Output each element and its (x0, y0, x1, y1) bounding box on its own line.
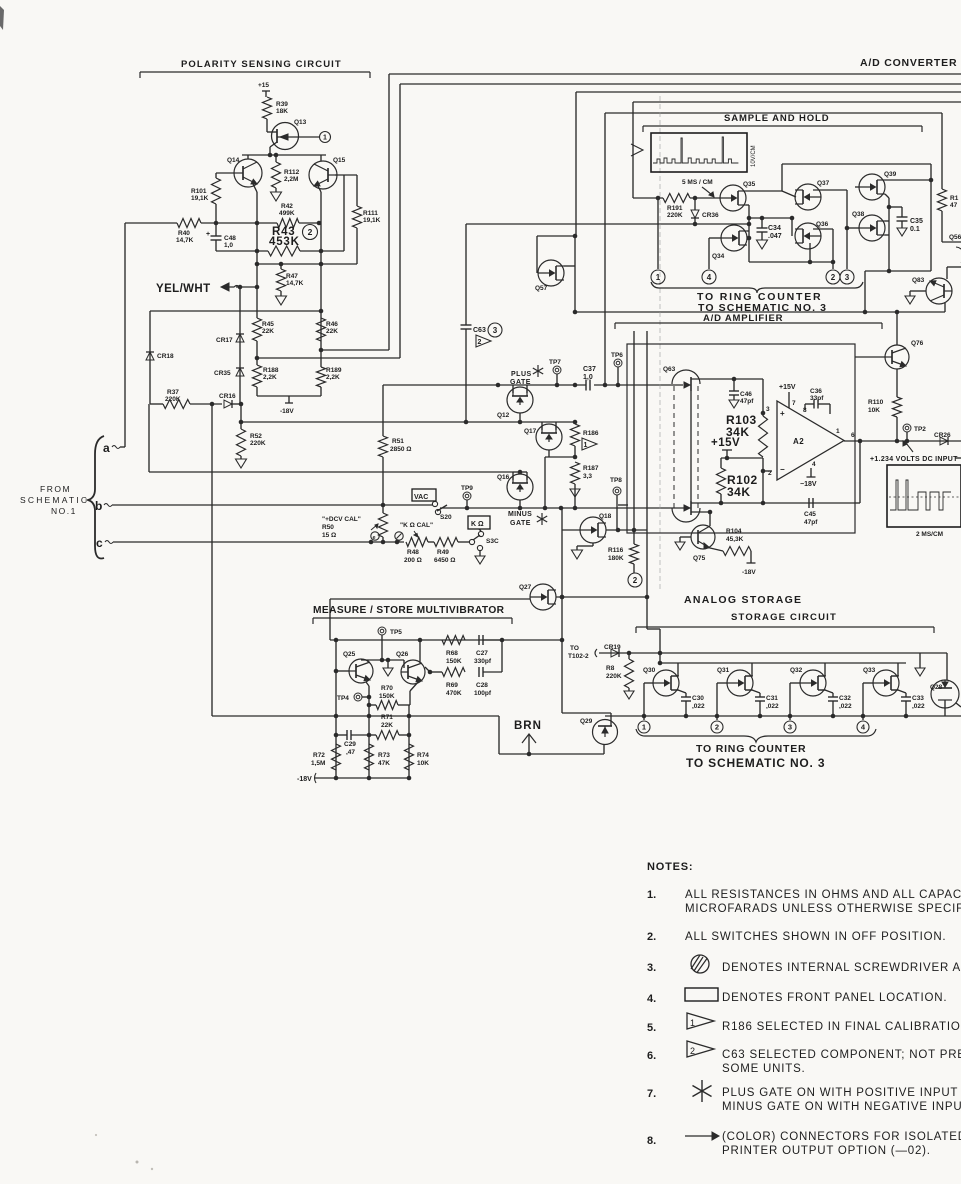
svg-text:2: 2 (308, 227, 313, 237)
svg-text:0.1: 0.1 (910, 226, 920, 233)
wire Q34 gate from connector 4 (709, 237, 721, 239)
wire Q76 base (855, 356, 885, 358)
wire emitter rail y264 (257, 263, 357, 265)
svg-text:(COLOR) CONNECTORS FOR ISOLATE: (COLOR) CONNECTORS FOR ISOLATED (722, 1131, 961, 1143)
wire x562 from minus gate down to Q29 (561, 508, 563, 712)
ground below C35 (897, 228, 907, 236)
resistor R110 (893, 397, 902, 417)
svg-text:Q16: Q16 (497, 474, 510, 481)
wire Q18 minus node (618, 504, 628, 506)
svg-text:C48: C48 (224, 235, 236, 242)
note flag circled 2 for R43 (303, 225, 318, 240)
svg-text:ALL RESISTANCES IN OHMS AND AL: ALL RESISTANCES IN OHMS AND ALL CAPACIT (685, 889, 961, 901)
connector circle 1 storage (638, 721, 650, 733)
wire Q33 source to capacitor (891, 689, 898, 691)
svg-text:R48: R48 (407, 549, 419, 556)
connector circle 2 sample hold (826, 270, 840, 284)
transistor Q27 (330, 598, 530, 600)
wire Q83 collector exit (946, 267, 948, 279)
wire Q17 bottom to R186 R187 junction (548, 450, 550, 457)
svg-text:5 MS / CM: 5 MS / CM (682, 179, 713, 186)
capacitor C48 (215, 223, 217, 236)
svg-text:R111: R111 (363, 210, 378, 217)
capacitor C28 (478, 667, 480, 677)
wire C27 rail to x562 (502, 639, 562, 641)
svg-text:R50: R50 (322, 524, 334, 531)
svg-text:C35: C35 (910, 218, 923, 225)
svg-text:+: + (780, 409, 785, 418)
ground right of Q33 (919, 653, 921, 668)
svg-text:1,5M: 1,5M (311, 760, 325, 767)
svg-text:3: 3 (788, 723, 792, 732)
wire S20 to TP9 minus gate line (440, 507, 586, 509)
svg-text:R186: R186 (583, 430, 599, 437)
note flag 1 for R186 (582, 438, 597, 450)
transistor Q15 (320, 155, 322, 161)
svg-text:22K: 22K (381, 722, 393, 729)
resistor R39 (263, 97, 272, 119)
svg-text:330pf: 330pf (474, 658, 492, 665)
transistor Q34 (721, 225, 747, 251)
svg-text:C30: C30 (692, 695, 704, 702)
bracket sample and hold (643, 125, 922, 127)
bracket A/D amplifier (615, 322, 882, 324)
svg-text:"+DCV CAL": "+DCV CAL" (322, 516, 361, 523)
resistor R101 (216, 172, 234, 174)
transistor Q31 (727, 670, 753, 696)
svg-text:C31: C31 (766, 695, 778, 702)
svg-text:C37: C37 (583, 366, 596, 373)
resistor R111 (335, 174, 357, 176)
svg-text:TP7: TP7 (549, 359, 561, 366)
svg-text:SCHEMATIC: SCHEMATIC (20, 495, 89, 505)
capacitor C29 (336, 734, 347, 736)
wire Q18 base left (562, 529, 580, 531)
svg-text:22K: 22K (262, 328, 274, 335)
svg-text:45,3K: 45,3K (726, 536, 744, 543)
svg-text:Q33: Q33 (863, 667, 876, 674)
star symbol minus gate (537, 516, 547, 522)
opamp A2 triangle (777, 401, 844, 480)
svg-text:2: 2 (768, 470, 772, 477)
svg-text:R71: R71 (381, 714, 393, 721)
svg-text:FROM: FROM (40, 484, 71, 494)
scope waveform box 2ms (887, 465, 961, 527)
wire feedback from output (859, 441, 861, 503)
svg-text:R40: R40 (178, 230, 190, 237)
capacitor C46 upper (733, 379, 735, 391)
svg-text:CR17: CR17 (216, 337, 233, 344)
svg-text:TP9: TP9 (461, 485, 473, 492)
svg-text:+15V: +15V (779, 384, 796, 391)
wire minus gate line y472 (148, 404, 150, 472)
svg-text:Q31: Q31 (717, 667, 730, 674)
svg-text:47K: 47K (378, 760, 390, 767)
capacitor C35 (889, 206, 902, 208)
svg-text:R74: R74 (417, 752, 429, 759)
bracket multivibrator (313, 617, 512, 619)
wire Q14 emitter (253, 184, 257, 192)
svg-text:Q17: Q17 (524, 428, 537, 435)
transistor Q29 (593, 720, 618, 745)
wire top rail y164 (782, 163, 931, 165)
resistor R48 (406, 538, 428, 547)
svg-text:R187: R187 (583, 465, 599, 472)
svg-text:TP5: TP5 (390, 629, 402, 636)
svg-text:3: 3 (845, 273, 850, 282)
transistor Q17 (536, 424, 562, 450)
svg-text:CR18: CR18 (157, 353, 174, 360)
svg-text:+1.234 VOLTS DC INPUT: +1.234 VOLTS DC INPUT (870, 456, 958, 463)
svg-text:5.: 5. (647, 1022, 656, 1034)
svg-text:+15V: +15V (711, 437, 740, 449)
ground below R52 (240, 456, 242, 459)
transistor Q12 (507, 387, 533, 413)
wire Q18 bottom to ground (592, 543, 594, 546)
svg-text:Q83: Q83 (912, 277, 925, 284)
svg-text:YEL/WHT: YEL/WHT (156, 283, 211, 295)
svg-text:A2: A2 (793, 437, 804, 446)
wire terminal c line (113, 541, 404, 543)
resistor R40 (125, 222, 177, 224)
wire C34 rail to Q36 (791, 218, 793, 236)
svg-text:MICROFARADS UNLESS OTHERWISE S: MICROFARADS UNLESS OTHERWISE SPECIFIE (685, 903, 961, 915)
transistor Q16 (507, 474, 533, 500)
wire Q33 drain to rail (891, 675, 898, 677)
wire x240 down to CR16 row (239, 287, 241, 404)
bracket storage circuit (636, 626, 934, 628)
wire terminal b line (112, 504, 433, 506)
wire gate riser connector 1 (644, 682, 653, 684)
svg-text:DENOTES INTERNAL SCREWDRIVER A: DENOTES INTERNAL SCREWDRIVER AD (722, 962, 961, 974)
wire Q39 line to left rail (865, 270, 931, 272)
wire terminal a up to R40 (120, 446, 125, 448)
wire rail to Q28 (946, 653, 948, 680)
svg-text:A/D AMPLIFIER: A/D AMPLIFIER (703, 313, 783, 324)
diode CR18 vertical line (149, 311, 151, 404)
transistor Q33 (873, 670, 899, 696)
box K-ohm front panel (468, 516, 490, 529)
svg-text:Q75: Q75 (693, 555, 706, 562)
svg-text:R191: R191 (667, 205, 683, 212)
svg-text:470K: 470K (446, 690, 462, 697)
wire bus vertical x400 (399, 84, 401, 358)
resistor R103 (759, 416, 768, 457)
svg-text:453K: 453K (269, 236, 300, 248)
svg-text:1: 1 (656, 273, 661, 282)
brace to ring counter (651, 282, 863, 293)
svg-text:a: a (103, 441, 110, 455)
wire bus y113 to R190 (605, 112, 942, 114)
box VAC front panel (412, 489, 436, 501)
arrow below R187 (574, 484, 576, 508)
fold artifact line (659, 96, 661, 590)
wire Q27 output (556, 596, 647, 598)
svg-text:2: 2 (633, 576, 638, 585)
wire plus gate line y385 (383, 384, 586, 386)
arrow to TP2 (904, 441, 913, 452)
svg-text:R39: R39 (276, 101, 288, 108)
svg-text:-18V: -18V (742, 569, 756, 576)
resistor R188 (253, 365, 262, 387)
wire CR16 node down (240, 404, 242, 429)
svg-text:3: 3 (493, 326, 498, 335)
transistor Q28 (931, 680, 959, 708)
scan edge artifact (0, 6, 4, 30)
wire bus vertical x389 (388, 74, 390, 350)
svg-text:10V/CM: 10V/CM (751, 145, 757, 167)
svg-text:R188: R188 (263, 367, 279, 374)
ground below C46 (729, 400, 739, 408)
wire Q31 source to capacitor (745, 689, 752, 691)
svg-text:T102-2: T102-2 (568, 653, 589, 660)
resistor R191 (663, 194, 690, 203)
svg-text:Q30: Q30 (643, 667, 656, 674)
svg-text:1,0: 1,0 (583, 374, 593, 381)
resistor R190 at right (938, 189, 947, 211)
resistor R8 (628, 653, 630, 659)
resistor R45 (253, 318, 262, 341)
svg-text:R72: R72 (313, 752, 325, 759)
connector circle 3 sample hold (840, 270, 854, 284)
svg-text:R186 SELECTED IN FINAL CALIBRA: R186 SELECTED IN FINAL CALIBRATIO (722, 1021, 961, 1033)
wire Q30 source to capacitor (671, 689, 678, 691)
wire -18V rail under R188 R189 (256, 387, 258, 396)
resistor R116 (633, 530, 635, 544)
svg-text:,022: ,022 (766, 703, 779, 710)
svg-text:,022: ,022 (839, 703, 852, 710)
svg-text:100pf: 100pf (474, 690, 492, 697)
svg-text:S3C: S3C (486, 538, 499, 545)
svg-text:2,2K: 2,2K (263, 374, 277, 381)
svg-text:GATE: GATE (510, 520, 531, 527)
wire YEL/WHT (236, 286, 257, 288)
svg-text:14,7K: 14,7K (286, 280, 304, 287)
svg-text:R1: R1 (950, 195, 959, 202)
svg-text:C63: C63 (473, 327, 486, 334)
wire R46 top to CR18 (150, 310, 321, 312)
svg-text:4: 4 (812, 461, 816, 468)
wire R51 riser (382, 385, 384, 436)
capacitor C27 (478, 635, 480, 645)
switch S3C (469, 539, 474, 544)
svg-text:15 Ω: 15 Ω (322, 532, 336, 539)
transistor Q35 (720, 185, 746, 211)
svg-text:Q26: Q26 (396, 651, 409, 658)
svg-text:Q35: Q35 (743, 181, 756, 188)
capacitor C32 (828, 696, 838, 698)
wire Q35 source down (746, 204, 749, 206)
svg-text:R68: R68 (446, 650, 458, 657)
svg-text:A/D CONVERTER: A/D CONVERTER (860, 57, 957, 69)
svg-text:1: 1 (836, 428, 840, 435)
wire storage bottom rail y716 (605, 715, 961, 717)
resistor R47 (280, 264, 282, 269)
testpoint TP5 (378, 627, 386, 635)
svg-text:2,2M: 2,2M (284, 176, 298, 183)
resistor R189 (317, 367, 326, 387)
wire Q63 drain to R103 (691, 378, 763, 380)
svg-text:C46: C46 (740, 391, 752, 398)
wire multivibrator top rail y640 (330, 639, 502, 641)
svg-text:499K: 499K (279, 210, 295, 217)
wire Q30 drain to rail (671, 675, 678, 677)
svg-text:TO RING COUNTER: TO RING COUNTER (696, 743, 806, 755)
resistor R42 (277, 219, 299, 228)
svg-text:PLUS GATE ON WITH POSITIVE INP: PLUS GATE ON WITH POSITIVE INPUT S (722, 1087, 961, 1099)
svg-text:R45: R45 (262, 321, 274, 328)
svg-text:47pf: 47pf (740, 398, 754, 405)
svg-text:R70: R70 (381, 685, 393, 692)
transistor Q18 (580, 517, 606, 543)
svg-text:7: 7 (792, 400, 796, 407)
svg-text:C45: C45 (804, 511, 816, 518)
svg-text:C29: C29 (344, 741, 356, 748)
svg-text:Q38: Q38 (852, 211, 865, 218)
svg-text:220K: 220K (250, 440, 266, 447)
box A/D amplifier outline (627, 344, 855, 533)
svg-text:MINUS GATE ON WITH NEGATIVE IN: MINUS GATE ON WITH NEGATIVE INPU (722, 1101, 961, 1113)
resistor R43 (216, 250, 268, 252)
resistor R72 (332, 744, 341, 770)
resistor R68 (442, 636, 465, 645)
wire Q36 bottom rail (809, 243, 811, 262)
wire Q37 output to x847 (813, 189, 847, 191)
resistor R102 (717, 468, 726, 494)
wire Q28 right stub (956, 703, 961, 707)
wire lower drain line y503 (691, 502, 807, 504)
svg-text:R101: R101 (191, 188, 207, 195)
wire x212 long vertical to multivibrator (211, 404, 213, 716)
wire Q35 to Q37 (746, 190, 782, 192)
resistor R49 (434, 538, 458, 547)
wire +15V supply to R103 R102 (722, 449, 732, 451)
svg-text:R104: R104 (726, 528, 742, 535)
svg-text:2850 Ω: 2850 Ω (390, 446, 411, 453)
wire cross couple y660 (361, 659, 404, 661)
svg-text:R189: R189 (326, 367, 342, 374)
wire +15 to R39 (265, 91, 267, 97)
svg-text:47: 47 (950, 202, 958, 209)
testpoint TP2 (903, 424, 911, 432)
svg-text:e: e (373, 535, 376, 541)
wire Q25 collector (367, 660, 369, 662)
svg-text:Q76: Q76 (911, 340, 924, 347)
svg-text:R37: R37 (167, 389, 179, 396)
wire Q32 source to capacitor (818, 689, 825, 691)
wire long row y716 (212, 715, 499, 717)
svg-text:CR36: CR36 (702, 212, 719, 219)
svg-text:−18V: −18V (800, 481, 817, 488)
svg-text:200 Ω: 200 Ω (404, 557, 422, 564)
svg-text:NOTES:: NOTES: (647, 861, 693, 873)
svg-text:-18V: -18V (280, 408, 294, 415)
svg-text:PLUS: PLUS (511, 371, 532, 378)
svg-text:47pf: 47pf (804, 519, 818, 526)
ground below S3C (477, 545, 482, 550)
ground below R112 (275, 188, 277, 192)
resistor R187 (571, 462, 580, 484)
capacitor C34 (749, 217, 792, 219)
wire Q36 output (813, 228, 833, 230)
wire Q18 collector to R116 (606, 529, 647, 531)
svg-text:19,1K: 19,1K (191, 195, 209, 202)
svg-text:220K: 220K (606, 673, 622, 680)
wire left rail x336 (335, 640, 337, 778)
wire bus y102 (633, 101, 961, 103)
resistor R51 (379, 436, 388, 457)
svg-text:Q29: Q29 (580, 718, 593, 725)
transistor Q75 (691, 525, 715, 549)
svg-text:1,0: 1,0 (224, 242, 233, 249)
transistor Q63 upper FET (672, 370, 700, 384)
wire y422 CR16 to Q17 (241, 421, 575, 423)
wire Q83 emitter down (944, 303, 946, 312)
connector circle 1 sample hold (657, 198, 659, 269)
transistor Q26 (401, 660, 425, 684)
wire Q26 emitter down (410, 681, 419, 691)
svg-text:1: 1 (584, 442, 588, 449)
wire gate riser connector 2 (717, 682, 727, 684)
svg-text:R52: R52 (250, 433, 262, 440)
svg-text:6450 Ω: 6450 Ω (434, 557, 455, 564)
transistor Q63 lower FET (672, 508, 700, 522)
wire storage top rail y653 from T102-2 (595, 649, 597, 657)
transistor Q25 (349, 659, 373, 683)
wire Q15 base drop to R43 (343, 175, 345, 251)
wire input line y198 (633, 197, 663, 199)
wire gate riser connector 3 (790, 682, 800, 684)
connector circle 4 storage (857, 721, 869, 733)
wire storage second rail y663 (660, 662, 906, 664)
svg-text:TP4: TP4 (337, 695, 349, 702)
svg-text:2: 2 (831, 273, 836, 282)
resistor R74 (405, 744, 414, 770)
wire R45 feed y358 (257, 357, 400, 359)
ground below R8 (628, 688, 630, 691)
svg-text:Q32: Q32 (790, 667, 803, 674)
svg-text:−: − (780, 465, 785, 474)
svg-text:3.: 3. (647, 962, 656, 974)
svg-text:10K: 10K (417, 760, 429, 767)
brace to ring counter storage (636, 729, 876, 742)
svg-text:2.: 2. (647, 931, 656, 943)
svg-text:C34: C34 (768, 225, 781, 232)
note circled 3 (488, 323, 502, 337)
svg-text:.047: .047 (768, 233, 782, 240)
svg-text:2 MS/CM: 2 MS/CM (916, 531, 943, 538)
svg-text:C32: C32 (839, 695, 851, 702)
wire Q76 emitter to R110 (896, 369, 898, 397)
screwdriver adjust circle e (371, 532, 379, 540)
svg-text:6.: 6. (647, 1050, 656, 1062)
connector circle 1 (320, 132, 331, 143)
ground below C34 (757, 240, 768, 249)
transistor Q37 (795, 184, 821, 210)
svg-text:R110: R110 (868, 399, 884, 406)
wire bus y84 (400, 83, 961, 85)
svg-text:150K: 150K (446, 658, 462, 665)
svg-text:NO.1: NO.1 (51, 506, 77, 516)
wire Q29 drain up (610, 713, 612, 726)
wire Q15 emitter (318, 186, 321, 192)
wire collector rail y155 (242, 154, 326, 156)
wire Q39 gate stub (855, 186, 859, 188)
svg-text:2: 2 (715, 723, 719, 732)
svg-text:POLARITY SENSING CIRCUIT: POLARITY SENSING CIRCUIT (181, 59, 342, 70)
wire Q39 output y183 (885, 179, 931, 181)
svg-text:Q39: Q39 (884, 171, 897, 178)
